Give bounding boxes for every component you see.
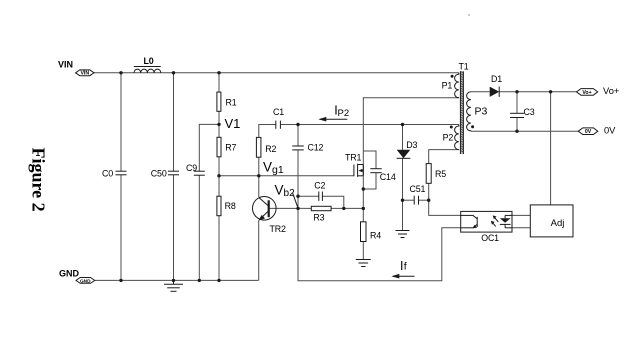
capacitor C12 [292,142,323,152]
resistor R2 [256,137,276,157]
wire C0 bottom to ground rail [120,175,122,281]
svg-text:C50: C50 [151,169,167,179]
svg-text:OC1: OC1 [481,233,499,243]
wire R1 bottom to R7 top through V1 node [218,111,220,137]
svg-text:VIN: VIN [58,59,73,69]
svg-text:R1: R1 [226,97,237,107]
svg-text:C3: C3 [524,107,535,117]
wire C2 branch left [298,195,319,197]
svg-text:R3: R3 [313,212,324,222]
wire T1 P2 bottom to R5 [429,150,459,164]
terminal VIN [58,59,94,76]
wire C14 bottom bracket [363,173,376,189]
svg-text:P1: P1 [442,81,453,91]
svg-text:GND: GND [80,278,91,284]
T1 winding P1 [455,73,459,98]
svg-text:L0: L0 [144,56,154,66]
terminal 0V [578,126,616,136]
wire D3 cathode to ground symbol [402,158,404,230]
svg-text:C9: C9 [186,163,197,173]
optocoupler OC1 [461,211,512,243]
wire V1 node to C9 branch [199,124,219,171]
MOSFET TR1 [345,152,363,177]
wire C9 bottom to ground rail [198,175,200,280]
wire C51 right lead [419,199,429,201]
svg-text:D3: D3 [406,140,417,150]
svg-text:VIN: VIN [80,71,89,77]
terminal Vo+ [577,86,620,96]
capacitor C14 [370,169,396,183]
svg-text:C2: C2 [314,180,325,190]
wire C51 left lead [403,199,415,201]
capacitor C9 [186,163,205,175]
ground symbol (D3) [396,231,410,238]
OC1 LED [500,218,511,222]
wire top rail VIN to T1 P1 [94,72,459,74]
capacitor C1 [273,107,284,129]
resistor R1 [217,92,237,111]
wire C50 bottom to ground rail [173,175,175,281]
node Vb2 [275,182,298,207]
svg-text:Vo+: Vo+ [582,90,591,96]
svg-text:Figure 2: Figure 2 [29,148,49,212]
wire OC1 to Adj top pin [512,214,530,216]
transformer T1 [442,61,488,154]
OC1 light arrows [495,218,499,222]
wire R5 bottom to OC1 pin [429,183,461,215]
svg-text:C51: C51 [410,184,426,194]
wire C50 branch [173,73,175,171]
svg-text:C1: C1 [273,107,284,117]
wire C12 bottom to feedback loop [298,150,461,281]
wire OC1 to Adj bottom pin [512,227,530,229]
diode D1 [490,74,503,97]
OC1 phototransistor [461,214,474,216]
T1 core [460,71,463,154]
svg-text:R7: R7 [225,143,236,153]
resistor R5 [426,164,446,184]
svg-text:P3: P3 [475,106,488,118]
wire P3 top to D1 anode [471,91,490,93]
wire C14 top bracket [363,151,376,169]
wire D1 cathode to Vo+ terminal [499,91,576,93]
svg-text:P2: P2 [443,133,454,143]
speck artifact [468,14,470,16]
ground symbol (R4) [356,260,371,267]
wire C12 top lead [297,125,299,147]
wire R4 bottom to ground symbol [362,242,364,260]
terminal GND [59,268,95,284]
capacitor C50 [151,169,179,179]
current arrow IP2 [318,104,349,122]
regulator block Adj [530,205,573,237]
svg-text:Adj: Adj [551,218,565,229]
svg-text:C12: C12 [308,142,324,152]
capacitor C0 [102,169,127,179]
svg-text:C14: C14 [380,172,396,182]
wire C0 branch [120,73,122,171]
resistor R7 [217,137,237,157]
wire R8 bottom to ground rail [218,216,220,281]
svg-text:T1: T1 [459,61,469,71]
wire snubber rail C1 right to T1 P2 top [280,124,458,126]
ground symbol (main rail) [164,280,183,291]
svg-text:f: f [404,261,407,273]
svg-text:GND: GND [59,268,80,278]
capacitor C3 [510,107,535,118]
capacitor C51 [410,184,426,205]
wire C3 bottom lead [516,118,518,132]
svg-text:TR1: TR1 [345,152,362,162]
current arrow If [391,259,414,279]
T1 winding P3 [467,92,471,131]
wire Vo+ sense line to Adj [550,92,552,205]
svg-text:P2: P2 [338,108,350,119]
svg-text:R4: R4 [370,230,381,240]
svg-text:0V: 0V [604,126,616,136]
wire D3 anode lead [402,125,404,150]
T1 winding P2 [455,125,459,150]
svg-text:D1: D1 [491,74,502,84]
wire TR2 base to R3 to TR1 source [269,207,363,209]
svg-text:V1: V1 [225,116,241,131]
svg-text:0V: 0V [585,129,592,135]
wire ground rail GND to TR2 emitter [95,279,259,281]
svg-text:TR2: TR2 [270,224,287,234]
resistor R3 [311,206,331,222]
wire P1 bottom to TR1 drain [363,98,459,176]
inductor L0 [134,56,161,73]
wire R1 top lead [218,73,220,92]
transistor TR2 [252,197,286,281]
capacitor C2 [314,180,325,201]
resistor R4 [361,222,382,242]
wire R2 bottom to TR2 collector [258,157,260,197]
svg-text:C0: C0 [102,169,113,179]
wire R7 bottom to R8 top through Vg1 node [218,157,220,196]
svg-text:R5: R5 [435,169,446,179]
wire C3 top lead [516,92,518,114]
wire P3 bottom to 0V terminal [471,130,578,132]
svg-text:Vo+: Vo+ [603,86,619,96]
wire Vg1 line to TR1 gate [219,175,354,177]
wire TR1 source down to R4 [362,176,364,222]
svg-text:R2: R2 [265,144,276,154]
wire C2 branch right [322,196,343,208]
diode D3 [397,140,418,158]
svg-text:R8: R8 [225,201,236,211]
resistor R8 [217,196,236,216]
wire snubber rail C1 left / R2 top corner [259,125,276,138]
